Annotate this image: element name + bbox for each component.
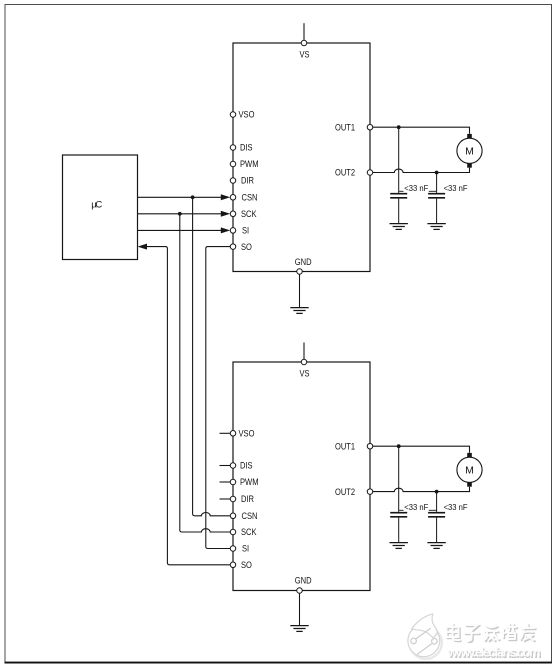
svg-text:VS: VS — [300, 50, 310, 60]
arrowhead into SCK U1 — [221, 211, 230, 217]
wire OUT2 U1 to motor M1 — [373, 168, 470, 173]
pin circle GND U1 — [297, 269, 303, 275]
svg-text:PWM: PWM — [240, 477, 259, 487]
pin circle DIS U2 — [230, 463, 236, 469]
wire VS stub U1 — [303, 23, 305, 40]
ground ground of C4 <33nF — [427, 543, 445, 549]
arrowhead into CSN U1 — [221, 194, 230, 200]
ground ground under U2 GND — [290, 626, 308, 632]
svg-text:GND: GND — [295, 576, 312, 586]
arrowhead into uC MISO — [138, 244, 147, 250]
wire OUT1 U2 to motor M2 — [373, 446, 470, 453]
svg-text:OUT2: OUT2 — [335, 168, 355, 178]
svg-text:SO: SO — [241, 560, 252, 570]
pin circle SCK U2 — [230, 529, 236, 535]
svg-text:SCK: SCK — [241, 527, 257, 537]
svg-text:OUT1: OUT1 — [335, 122, 355, 132]
pin circle OUT2 U1 — [367, 170, 373, 176]
IC U2 motor driver block — [233, 362, 370, 591]
wire uC to CSN U1 — [138, 196, 223, 198]
pin circle PWM U1 — [230, 161, 236, 167]
svg-text:<33 nF: <33 nF — [444, 183, 468, 193]
svg-text:DIR: DIR — [241, 176, 254, 186]
svg-text:SO: SO — [241, 242, 252, 252]
wire stub DIR U2 — [220, 498, 231, 500]
wire OUT2 U2 to motor M2 — [373, 487, 470, 492]
svg-text:GND: GND — [295, 257, 312, 267]
pin circle SO U1 — [230, 244, 236, 250]
pin circle SO U2 — [230, 562, 236, 568]
capacitor C3 <33nF — [390, 446, 407, 542]
watermark elecfans logo — [408, 614, 442, 659]
IC U1 motor driver block — [233, 43, 370, 272]
ground ground of C2 <33nF — [427, 224, 445, 230]
pin circle CSN U1 — [230, 195, 236, 201]
svg-text:SI: SI — [242, 544, 249, 554]
svg-text:PWM: PWM — [240, 159, 259, 169]
wire SO U2 to uC — [147, 247, 230, 565]
junction on OUT2 U2 line — [435, 490, 439, 494]
pin circle OUT1 U1 — [367, 124, 373, 130]
svg-text:VSO: VSO — [239, 110, 255, 120]
svg-text:CSN: CSN — [242, 511, 258, 521]
svg-text:DIS: DIS — [240, 143, 253, 153]
svg-text:<33 nF: <33 nF — [404, 502, 428, 512]
svg-text:CSN: CSN — [242, 193, 258, 203]
wire GND U1 to ground — [299, 274, 301, 307]
pin circle VS U2 — [301, 359, 307, 365]
wire GND U2 to ground — [299, 593, 301, 625]
svg-text:www.elecfans.com: www.elecfans.com — [447, 645, 541, 660]
capacitor C2 <33nF — [428, 173, 445, 224]
pin circle VSO U1 — [230, 112, 236, 118]
capacitor C4 <33nF — [428, 492, 445, 542]
ground ground of C3 <33nF — [390, 543, 408, 549]
leader tick C1 label — [399, 190, 403, 192]
svg-text:µC: µC — [91, 200, 102, 211]
svg-text:DIR: DIR — [241, 494, 254, 504]
pin circle DIR U1 — [230, 178, 236, 184]
junction on OUT2 U1 line — [435, 171, 439, 175]
wire SCK net to U2 — [180, 214, 230, 532]
pin circle SI U2 — [230, 546, 236, 552]
watermark text dian-zi-fa-shao-you — [447, 624, 536, 642]
pin circle VSO U2 — [230, 431, 236, 437]
junction on CSN line — [191, 195, 195, 199]
pin circle OUT1 U2 — [367, 443, 373, 449]
wire stub VSO U2 — [220, 432, 231, 434]
wire stub PWM U2 — [220, 481, 231, 483]
svg-text:VSO: VSO — [239, 429, 255, 439]
leader tick C3 label — [399, 509, 403, 511]
pin circle OUT2 U2 — [367, 489, 373, 495]
pin circle SI U1 — [230, 228, 236, 234]
wire OUT1 U1 to motor M1 — [373, 127, 470, 134]
junction on OUT1 U2 line — [397, 444, 401, 448]
wire uC to SI U1 — [138, 229, 223, 231]
ground ground under U1 GND — [290, 308, 308, 314]
junction on OUT1 U1 line — [397, 125, 401, 129]
svg-text:OUT2: OUT2 — [335, 487, 355, 497]
leader tick C4 label — [429, 509, 436, 511]
junction on SCK line — [178, 212, 182, 216]
wire uC to SCK U1 — [138, 213, 223, 215]
pin circle VS U1 — [301, 40, 307, 46]
pin circle DIR U2 — [230, 496, 236, 502]
pin circle DIS U1 — [230, 145, 236, 151]
svg-text:<33 nF: <33 nF — [404, 183, 428, 193]
wire stub DIS U2 — [220, 465, 231, 467]
capacitor C1 <33nF — [390, 127, 407, 223]
motor M2 — [457, 453, 482, 487]
svg-text:VS: VS — [300, 369, 310, 379]
svg-text:M: M — [465, 465, 474, 477]
wire VS stub U2 — [303, 343, 305, 360]
svg-text:SI: SI — [242, 226, 249, 236]
ground ground of C1 <33nF — [390, 224, 408, 230]
microcontroller uC block — [63, 155, 138, 260]
pin circle PWM U2 — [230, 479, 236, 485]
svg-text:M: M — [465, 146, 474, 158]
svg-text:OUT1: OUT1 — [335, 441, 355, 451]
svg-text:SCK: SCK — [241, 209, 257, 219]
svg-text:<33 nF: <33 nF — [444, 502, 468, 512]
arrowhead into SI U1 — [221, 227, 230, 233]
wire CSN net to U2 — [193, 197, 231, 516]
wire SO U1 to SI U2 — [206, 247, 230, 549]
pin circle CSN U2 — [230, 513, 236, 519]
pin circle SCK U1 — [230, 211, 236, 217]
leader tick C2 label — [429, 190, 436, 192]
motor M1 — [457, 134, 482, 168]
svg-text:DIS: DIS — [240, 461, 253, 471]
pin circle GND U2 — [297, 588, 303, 594]
